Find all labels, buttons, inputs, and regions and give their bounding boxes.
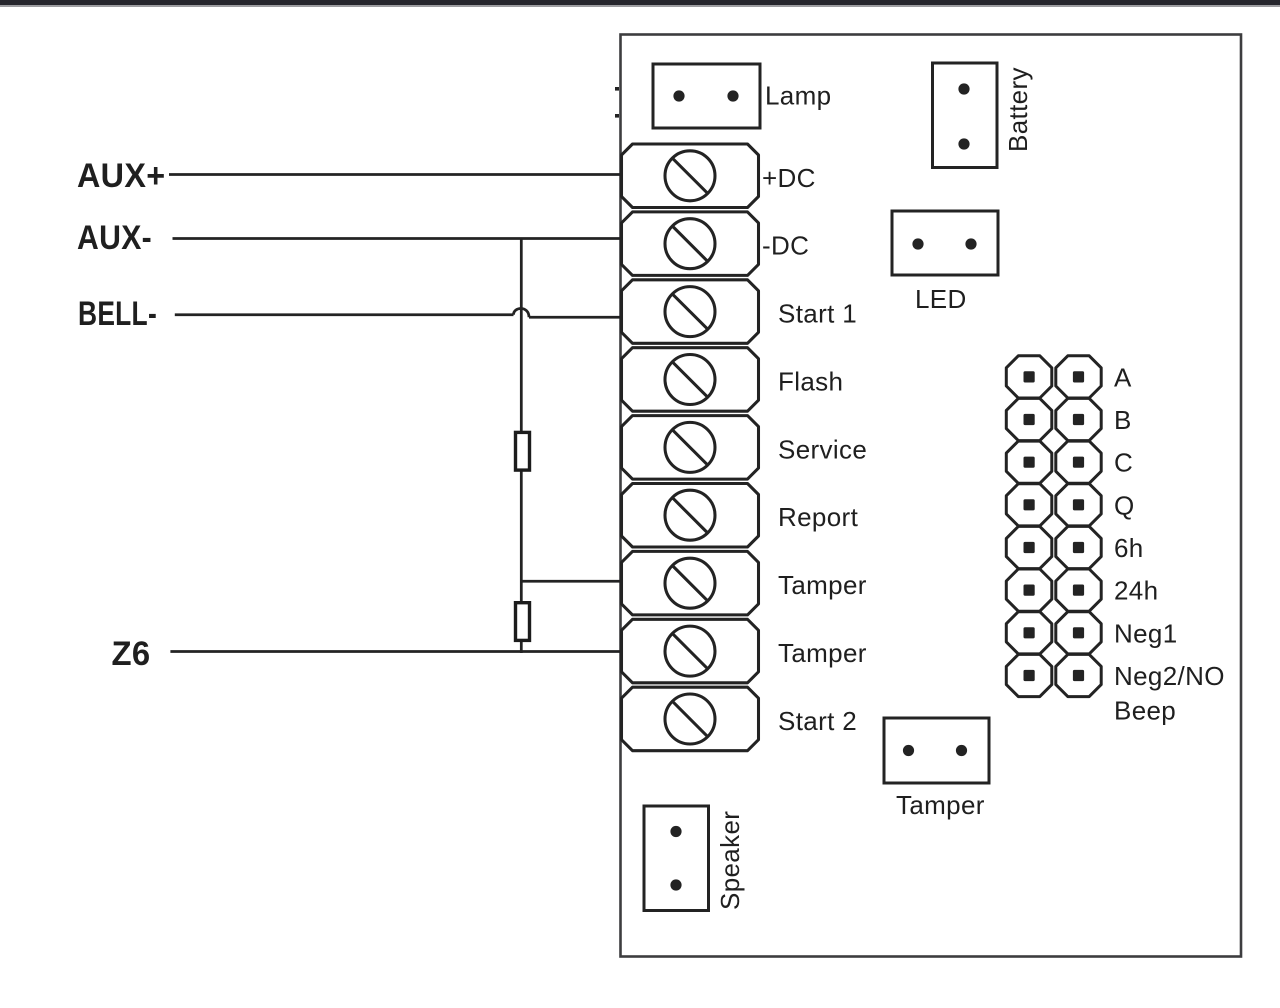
screw terminal Tamper: [622, 619, 759, 683]
svg-text:C: C: [1114, 448, 1133, 478]
wire AUX+ to +DC terminal: [169, 173, 623, 176]
connector Tamper (board): [884, 718, 989, 783]
screw terminal Tamper: [622, 551, 759, 615]
svg-text:Q: Q: [1114, 490, 1135, 520]
wire Z6 to second Tamper terminal: [170, 650, 623, 653]
svg-text:Lamp: Lamp: [765, 81, 831, 111]
wire resistor R2 bottom lead to Z6 line: [520, 638, 523, 653]
svg-text:6h: 6h: [1114, 533, 1144, 563]
LED pin 1: [912, 238, 923, 249]
svg-text:BELL-: BELL-: [78, 295, 157, 333]
svg-text:Start 2: Start 2: [778, 706, 857, 736]
screw terminal Start 2: [622, 687, 759, 751]
svg-text:Report: Report: [778, 502, 859, 532]
svg-text:LED: LED: [915, 284, 967, 314]
svg-text:Neg2/NO: Neg2/NO: [1114, 661, 1225, 691]
screw terminal Start 1: [622, 280, 759, 344]
svg-text:A: A: [1114, 362, 1132, 392]
connector Speaker: [644, 806, 709, 911]
svg-text:24h: 24h: [1114, 576, 1158, 606]
pin header row Q: [1006, 484, 1052, 526]
svg-text:Tamper: Tamper: [778, 638, 867, 668]
svg-text:Battery: Battery: [1003, 67, 1033, 152]
pin header row 6h: [1006, 526, 1052, 568]
svg-text:Start 1: Start 1: [778, 299, 857, 329]
wire BELL- left segment: [175, 313, 514, 316]
resistor R1 (EOL resistor on AUX-/Tamper branch): [516, 432, 530, 470]
tick mark lower: [615, 114, 619, 118]
screw terminal -DC: [622, 212, 759, 276]
board outline: [621, 35, 1242, 957]
Battery pin 2: [958, 138, 969, 149]
svg-text:Service: Service: [778, 434, 867, 464]
screw terminal Report: [622, 484, 759, 548]
wire hop over vertical branch (no connection): [514, 308, 530, 317]
wire AUX- to -DC terminal: [173, 237, 624, 240]
wire junction branch to first Tamper terminal: [521, 580, 623, 583]
svg-text:Z6: Z6: [112, 635, 151, 673]
svg-text:-DC: -DC: [762, 231, 809, 261]
tick mark upper: [615, 87, 619, 91]
pin header row 24h: [1006, 569, 1052, 611]
top black bar: [0, 0, 1280, 5]
pin header row Neg1: [1006, 612, 1052, 654]
Tamper pin 1: [903, 745, 914, 756]
LED pin 2: [965, 238, 976, 249]
Lamp pin 1: [673, 90, 684, 101]
svg-text:+DC: +DC: [762, 163, 816, 193]
pin header row A: [1006, 356, 1052, 398]
wire BELL- right segment to Start 1 terminal: [529, 316, 623, 319]
pin header row B: [1006, 398, 1052, 440]
connector LED: [892, 211, 998, 275]
pin header row Neg2/NO: [1006, 654, 1052, 696]
svg-text:AUX+: AUX+: [77, 157, 166, 195]
screw terminal Flash: [622, 348, 759, 412]
svg-text:Tamper: Tamper: [778, 570, 867, 600]
svg-text:Neg1: Neg1: [1114, 618, 1178, 648]
connector Battery: [933, 63, 998, 168]
svg-text:Beep: Beep: [1114, 696, 1176, 726]
Battery pin 1: [958, 83, 969, 94]
Lamp pin 2: [727, 90, 738, 101]
Tamper pin 2: [956, 745, 967, 756]
screw terminal +DC: [622, 144, 759, 208]
svg-text:Tamper: Tamper: [896, 790, 985, 820]
svg-text:Flash: Flash: [778, 367, 843, 397]
vertical branch wire from AUX- down to resistor chain: [520, 239, 523, 605]
svg-text:B: B: [1114, 405, 1132, 435]
svg-text:Speaker: Speaker: [715, 811, 745, 910]
Speaker pin 2: [670, 879, 681, 890]
Speaker pin 1: [670, 826, 681, 837]
pin header row C: [1006, 441, 1052, 483]
screw terminal Service: [622, 416, 759, 480]
svg-text:AUX-: AUX-: [77, 219, 152, 257]
connector Lamp: [653, 64, 760, 128]
resistor R2 (EOL resistor between Tamper and Z6): [516, 603, 530, 641]
